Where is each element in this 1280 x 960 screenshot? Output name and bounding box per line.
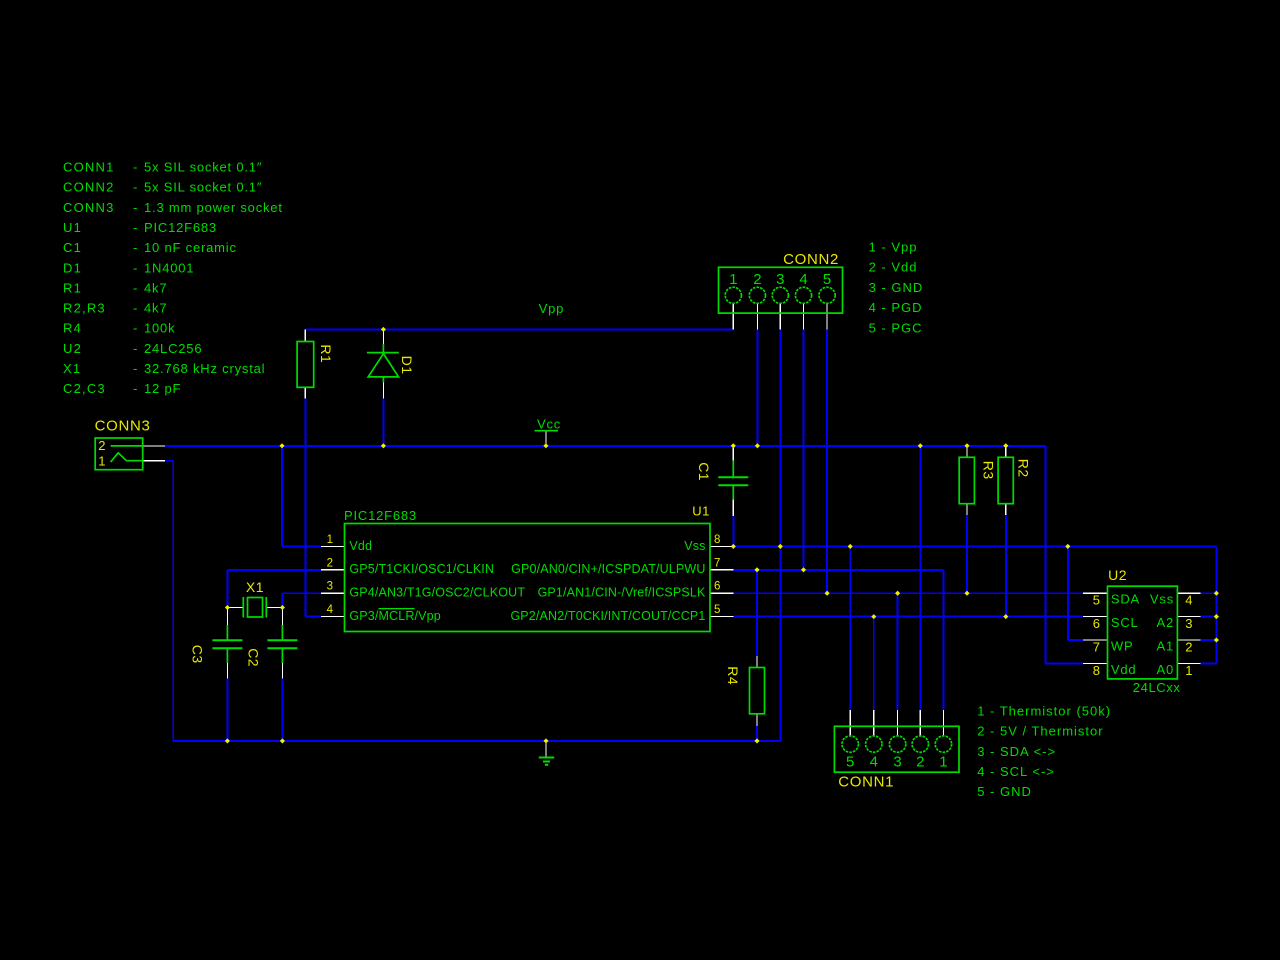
svg-text:7: 7 [1093, 640, 1100, 655]
svg-text:1N4001: 1N4001 [144, 260, 194, 275]
svg-text:-: - [133, 280, 138, 295]
svg-text:Vss: Vss [1150, 592, 1174, 607]
svg-text:4: 4 [1185, 593, 1192, 608]
svg-text:Vss: Vss [684, 539, 705, 553]
svg-text:5 - GND: 5 - GND [977, 784, 1032, 799]
svg-text:A0: A0 [1156, 662, 1174, 677]
svg-text:GP1/AN1/CIN-/Vref/ICSPSLK: GP1/AN1/CIN-/Vref/ICSPSLK [538, 586, 706, 600]
svg-text:3: 3 [1185, 616, 1192, 631]
svg-text:GP2/AN2/T0CKI/INT/COUT/CCP1: GP2/AN2/T0CKI/INT/COUT/CCP1 [510, 609, 705, 623]
svg-text:2: 2 [916, 754, 924, 771]
svg-text:6: 6 [1093, 616, 1100, 631]
svg-text:-: - [133, 200, 138, 215]
svg-text:2: 2 [327, 557, 333, 569]
svg-text:C1: C1 [696, 462, 712, 481]
svg-text:U2: U2 [1108, 567, 1127, 583]
svg-text:24LC256: 24LC256 [144, 341, 202, 356]
svg-text:5: 5 [1093, 593, 1100, 608]
svg-text:4k7: 4k7 [144, 301, 167, 316]
svg-text:6: 6 [714, 581, 720, 593]
svg-text:-: - [133, 260, 138, 275]
svg-text:7: 7 [714, 557, 720, 569]
svg-text:-: - [133, 301, 138, 316]
svg-text:-: - [133, 321, 138, 336]
svg-text:X1: X1 [246, 579, 264, 595]
svg-text:4 - PGD: 4 - PGD [869, 300, 923, 315]
svg-text:2 - 5V / Thermistor: 2 - 5V / Thermistor [977, 724, 1103, 739]
svg-text:Vcc: Vcc [537, 416, 561, 431]
svg-text:3: 3 [327, 581, 333, 593]
svg-text:-: - [133, 341, 138, 356]
svg-text:-: - [133, 381, 138, 396]
svg-text:R4: R4 [725, 666, 741, 685]
svg-text:GP0/AN0/CIN+/ICSPDAT/ULPWU: GP0/AN0/CIN+/ICSPDAT/ULPWU [511, 562, 705, 576]
svg-text:5x SIL socket 0.1″: 5x SIL socket 0.1″ [144, 180, 262, 195]
svg-text:4: 4 [799, 271, 807, 288]
svg-text:5 - PGC: 5 - PGC [869, 320, 923, 335]
svg-text:3: 3 [893, 754, 901, 771]
svg-text:1: 1 [1185, 663, 1192, 678]
svg-text:U2: U2 [63, 341, 82, 356]
svg-text:R3: R3 [980, 461, 996, 480]
svg-text:1 - Thermistor (50k): 1 - Thermistor (50k) [977, 703, 1111, 718]
svg-text:D1: D1 [63, 260, 82, 275]
svg-text:C1: C1 [63, 240, 82, 255]
svg-text:C2,C3: C2,C3 [63, 381, 106, 396]
svg-text:PIC12F683: PIC12F683 [344, 508, 417, 523]
svg-text:4: 4 [870, 754, 878, 771]
svg-text:8: 8 [1093, 663, 1100, 678]
svg-text:Vpp: Vpp [539, 301, 565, 316]
svg-text:Vdd: Vdd [349, 539, 372, 553]
svg-text:-: - [133, 240, 138, 255]
svg-text:CONN1: CONN1 [838, 773, 894, 790]
svg-text:CONN1: CONN1 [63, 160, 115, 175]
svg-text:X1: X1 [63, 361, 81, 376]
svg-text:CONN2: CONN2 [63, 180, 115, 195]
svg-text:CONN3: CONN3 [63, 200, 115, 215]
svg-text:U1: U1 [692, 503, 710, 518]
svg-text:1: 1 [939, 754, 947, 771]
svg-text:CONN3: CONN3 [95, 418, 151, 435]
svg-text:WP: WP [1111, 639, 1134, 654]
svg-text:1 - Vpp: 1 - Vpp [869, 240, 918, 255]
svg-text:C3: C3 [189, 645, 205, 664]
svg-text:-: - [133, 180, 138, 195]
svg-text:12 pF: 12 pF [144, 381, 181, 396]
svg-text:4: 4 [327, 604, 334, 616]
svg-text:5: 5 [823, 271, 831, 288]
svg-text:CONN2: CONN2 [783, 251, 839, 268]
svg-text:5: 5 [846, 754, 854, 771]
svg-text:100k: 100k [144, 321, 175, 336]
svg-text:2: 2 [753, 271, 761, 288]
svg-text:4 - SCL <->: 4 - SCL <-> [977, 764, 1055, 779]
svg-text:R4: R4 [63, 321, 82, 336]
svg-text:4k7: 4k7 [144, 280, 167, 295]
svg-text:-: - [133, 361, 138, 376]
svg-text:32.768 kHz crystal: 32.768 kHz crystal [144, 361, 265, 376]
svg-text:SCL: SCL [1111, 615, 1139, 630]
svg-text:GP4/AN3/T1G/OSC2/CLKOUT: GP4/AN3/T1G/OSC2/CLKOUT [349, 586, 525, 600]
svg-text:SDA: SDA [1111, 592, 1140, 607]
svg-text:GP5/T1CKI/OSC1/CLKIN: GP5/T1CKI/OSC1/CLKIN [349, 562, 494, 576]
svg-text:A1: A1 [1156, 639, 1174, 654]
svg-text:3 - SDA <->: 3 - SDA <-> [977, 744, 1056, 759]
svg-text:3 - GND: 3 - GND [869, 280, 924, 295]
svg-text:2: 2 [1185, 640, 1192, 655]
svg-text:1: 1 [327, 534, 333, 546]
svg-text:GP3/MCLR/Vpp: GP3/MCLR/Vpp [349, 609, 440, 623]
svg-text:C2: C2 [246, 648, 262, 667]
svg-text:R1: R1 [318, 344, 334, 363]
svg-text:1: 1 [729, 271, 737, 288]
svg-text:1.3 mm power socket: 1.3 mm power socket [144, 200, 283, 215]
svg-text:PIC12F683: PIC12F683 [144, 220, 217, 235]
svg-text:U1: U1 [63, 220, 82, 235]
svg-text:24LCxx: 24LCxx [1133, 680, 1181, 695]
svg-text:10 nF ceramic: 10 nF ceramic [144, 240, 237, 255]
svg-text:5: 5 [714, 604, 720, 616]
svg-text:-: - [133, 220, 138, 235]
svg-text:-: - [133, 160, 138, 175]
svg-text:2 - Vdd: 2 - Vdd [869, 260, 918, 275]
svg-text:3: 3 [776, 271, 784, 288]
svg-text:R2: R2 [1015, 459, 1031, 478]
svg-text:D1: D1 [399, 356, 415, 375]
svg-text:1: 1 [98, 454, 105, 469]
svg-text:R1: R1 [63, 280, 82, 295]
svg-text:2: 2 [98, 438, 105, 453]
svg-text:8: 8 [714, 534, 720, 546]
svg-text:R2,R3: R2,R3 [63, 301, 106, 316]
svg-text:5x SIL socket 0.1″: 5x SIL socket 0.1″ [144, 160, 262, 175]
svg-text:A2: A2 [1156, 615, 1174, 630]
svg-text:Vdd: Vdd [1111, 662, 1137, 677]
